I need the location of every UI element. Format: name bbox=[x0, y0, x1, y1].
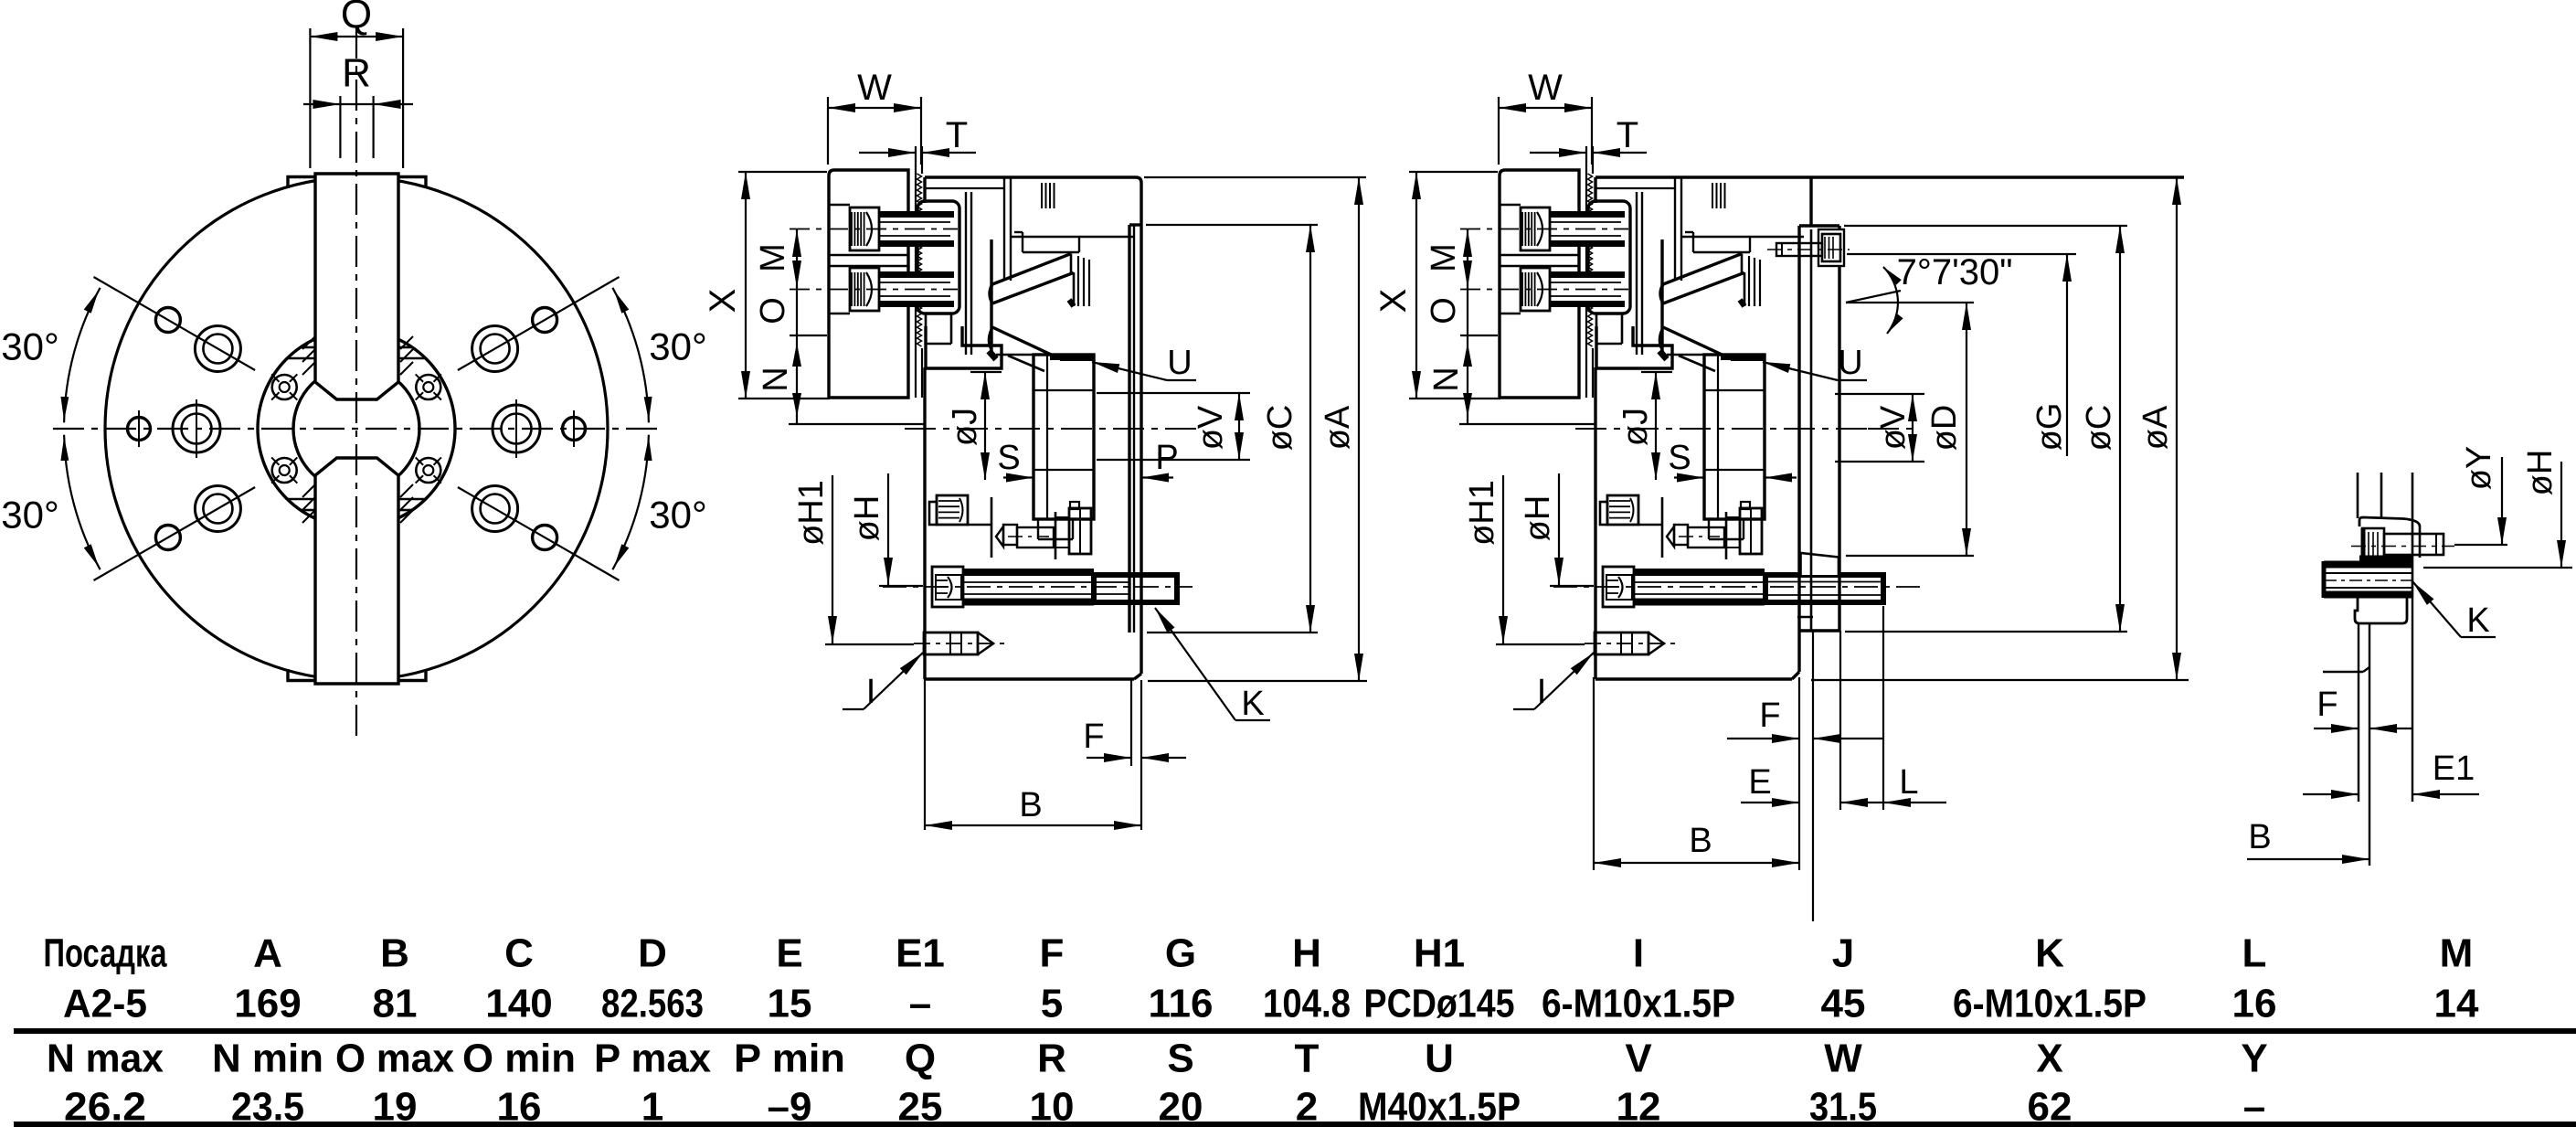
dim E1 detail bbox=[2303, 750, 2479, 799]
svg-text:O max: O max bbox=[335, 1037, 455, 1081]
svg-text:30°: 30° bbox=[649, 325, 707, 368]
main centerline bbox=[905, 428, 1197, 430]
svg-text:K: K bbox=[1241, 685, 1264, 723]
svg-text:20: 20 bbox=[1159, 1085, 1203, 1127]
svg-text:30°: 30° bbox=[1, 494, 59, 537]
7 deg 7 30 angle bbox=[1846, 252, 2012, 334]
draw screw thread block bbox=[1094, 575, 1177, 602]
svg-text:5: 5 bbox=[1041, 982, 1063, 1026]
table divider line bbox=[14, 1028, 2576, 1034]
svg-text:C: C bbox=[504, 931, 534, 976]
svg-text:81: 81 bbox=[373, 982, 418, 1026]
table values row 2 bbox=[64, 1085, 2265, 1127]
dim O bbox=[1425, 288, 1498, 335]
Q dimension bbox=[310, 0, 403, 168]
slot serration hatch marks bbox=[302, 336, 413, 523]
svg-text:R: R bbox=[342, 51, 371, 96]
svg-text:K: K bbox=[2466, 601, 2489, 640]
svg-text:Посадка: Посадка bbox=[44, 931, 167, 976]
svg-text:169: 169 bbox=[234, 982, 301, 1026]
svg-text:øY: øY bbox=[2460, 446, 2498, 491]
jaw mounting bolt 2 bbox=[1460, 268, 1628, 314]
svg-text:X: X bbox=[1373, 289, 1414, 314]
middle body right edge bbox=[1129, 183, 1141, 679]
svg-text:26.2: 26.2 bbox=[64, 1085, 146, 1127]
dim oC right bbox=[1844, 226, 2127, 632]
flange screw bbox=[1767, 229, 1850, 266]
svg-text:øA: øA bbox=[1319, 405, 1357, 450]
bolt circle symbols on axis bbox=[128, 399, 586, 458]
svg-text:7°7'30": 7°7'30" bbox=[1897, 252, 2013, 292]
black thread mark U right bbox=[1731, 354, 1765, 361]
svg-text:N min: N min bbox=[212, 1037, 323, 1081]
dim S bbox=[1668, 439, 1704, 483]
adapter ref lines down bbox=[925, 679, 1141, 830]
svg-text:øG: øG bbox=[2030, 403, 2069, 452]
jaw mounting bolt 2 bbox=[790, 268, 958, 314]
dim F middle bbox=[1083, 718, 1186, 762]
body outline bbox=[925, 177, 1141, 679]
jaw serration strip bbox=[1586, 146, 1593, 398]
svg-text:16: 16 bbox=[497, 1085, 542, 1127]
right S second arrow bbox=[1765, 473, 1797, 483]
svg-text:J: J bbox=[1832, 931, 1854, 976]
svg-text:F: F bbox=[1759, 696, 1780, 735]
svg-text:O: O bbox=[754, 297, 792, 324]
svg-text:E: E bbox=[776, 931, 802, 976]
dim oD right bbox=[1846, 303, 1974, 556]
svg-text:30°: 30° bbox=[1, 325, 59, 368]
dim oV middle bbox=[1097, 393, 1250, 460]
draw screw centerline bbox=[883, 586, 1193, 588]
dim L right bbox=[1883, 763, 1946, 807]
svg-text:øH1: øH1 bbox=[792, 480, 831, 546]
svg-text:øC: øC bbox=[2080, 405, 2118, 452]
locating plunger bbox=[1585, 633, 1676, 654]
center bore circle bbox=[293, 366, 419, 492]
pinion gear block bbox=[1726, 502, 1762, 559]
svg-text:N: N bbox=[757, 367, 795, 391]
svg-text:25: 25 bbox=[898, 1085, 943, 1127]
svg-text:12: 12 bbox=[1617, 1085, 1661, 1127]
svg-text:2: 2 bbox=[1296, 1085, 1318, 1127]
svg-text:–: – bbox=[2243, 1085, 2265, 1127]
detail: jaw nut block bbox=[2355, 598, 2407, 623]
dim oJ bbox=[946, 372, 1002, 480]
svg-text:Q: Q bbox=[341, 0, 372, 37]
label K leader detail bbox=[2412, 581, 2496, 640]
draw screw thread through flange bbox=[1765, 575, 1883, 602]
svg-text:23.5: 23.5 bbox=[231, 1085, 304, 1127]
svg-text:W: W bbox=[857, 68, 892, 108]
svg-text:N: N bbox=[1427, 367, 1466, 391]
dim N bbox=[757, 335, 925, 424]
dim oH1 bbox=[792, 475, 914, 644]
svg-text:øD: øD bbox=[1925, 405, 1964, 452]
draw screw shaft bbox=[962, 572, 1094, 602]
svg-text:–: – bbox=[909, 982, 931, 1026]
dim oJ bbox=[1617, 372, 1672, 480]
svg-text:X: X bbox=[2036, 1037, 2062, 1081]
svg-text:B: B bbox=[1689, 822, 1712, 860]
svg-text:øJ: øJ bbox=[946, 408, 984, 446]
svg-text:A: A bbox=[253, 931, 282, 976]
master jaw plate bbox=[917, 201, 959, 314]
label U leader bbox=[1092, 344, 1196, 382]
table header row 2 bbox=[47, 1037, 2268, 1081]
svg-text:O min: O min bbox=[462, 1037, 576, 1081]
svg-text:N max: N max bbox=[47, 1037, 164, 1081]
pinion plug bbox=[1600, 495, 1661, 525]
dim M bbox=[1425, 229, 1472, 288]
table values row 1 bbox=[63, 982, 2479, 1026]
svg-text:L: L bbox=[1899, 763, 1918, 802]
svg-text:T: T bbox=[946, 115, 968, 155]
svg-text:U: U bbox=[1425, 1037, 1454, 1081]
30 deg labels bbox=[1, 325, 707, 537]
svg-text:1: 1 bbox=[641, 1085, 663, 1127]
ref lines below right view bbox=[1594, 606, 1883, 921]
dim P bbox=[1141, 439, 1179, 483]
centerline horizontal bbox=[53, 428, 660, 430]
svg-text:U: U bbox=[1167, 344, 1192, 382]
svg-text:E1: E1 bbox=[2433, 750, 2475, 788]
label I leader bbox=[1513, 653, 1594, 711]
svg-text:S: S bbox=[1167, 1037, 1193, 1081]
svg-text:31.5: 31.5 bbox=[1809, 1085, 1877, 1127]
svg-text:I: I bbox=[866, 673, 876, 711]
master jaw plate bbox=[1588, 201, 1630, 314]
svg-text:M40x1.5P: M40x1.5P bbox=[1358, 1085, 1521, 1127]
detail: screw head bbox=[2362, 528, 2384, 562]
svg-text:P: P bbox=[1155, 439, 1178, 477]
svg-text:H1: H1 bbox=[1414, 931, 1465, 976]
set screw with cone tip bbox=[1662, 497, 1724, 558]
dim N bbox=[1427, 335, 1595, 424]
svg-text:øH: øH bbox=[848, 495, 886, 542]
wedge mechanism bbox=[1659, 239, 1760, 371]
collar above thread bbox=[1801, 553, 1839, 575]
svg-text:øV: øV bbox=[1874, 405, 1913, 450]
svg-text:116: 116 bbox=[1149, 982, 1214, 1026]
svg-text:E1: E1 bbox=[896, 931, 945, 976]
pinion gear block bbox=[1055, 502, 1091, 559]
svg-text:R: R bbox=[1037, 1037, 1066, 1081]
main centerline bbox=[1575, 428, 1919, 430]
svg-text:U: U bbox=[1838, 344, 1862, 382]
svg-text:O: O bbox=[1425, 297, 1463, 324]
svg-text:P min: P min bbox=[734, 1037, 845, 1081]
body outline bbox=[1595, 177, 1792, 679]
set screw with cone tip bbox=[991, 497, 1054, 558]
svg-text:PCDø145: PCDø145 bbox=[1364, 982, 1515, 1026]
dim oA right bbox=[1811, 177, 2189, 680]
svg-text:F: F bbox=[1040, 931, 1065, 976]
dim B detail bbox=[2247, 818, 2369, 864]
jaw serration strip bbox=[916, 146, 922, 398]
detail: jaw lines top bbox=[2358, 473, 2412, 598]
svg-text:19: 19 bbox=[373, 1085, 418, 1127]
svg-text:E: E bbox=[1748, 763, 1771, 802]
svg-text:W: W bbox=[1528, 68, 1563, 108]
cylinder seam lines bbox=[925, 177, 1133, 355]
detail: lines below bbox=[2323, 598, 2412, 866]
svg-text:X: X bbox=[703, 289, 743, 314]
draw screw shaft bbox=[1633, 572, 1765, 602]
sleeve bbox=[1704, 355, 1765, 539]
svg-text:16: 16 bbox=[2232, 982, 2277, 1026]
svg-text:Q: Q bbox=[905, 1037, 936, 1081]
svg-text:øC: øC bbox=[1261, 405, 1299, 452]
svg-text:A2-5: A2-5 bbox=[63, 982, 147, 1026]
svg-text:104.8: 104.8 bbox=[1263, 982, 1351, 1026]
dim W bbox=[1499, 68, 1592, 165]
centerline vertical bbox=[355, 27, 357, 739]
svg-text:M: M bbox=[1425, 243, 1463, 272]
detail: screw shank bbox=[2351, 534, 2454, 555]
label I leader bbox=[843, 653, 923, 711]
dim oH detail bbox=[2423, 450, 2572, 568]
svg-text:30°: 30° bbox=[649, 494, 707, 537]
dim B right bbox=[1594, 822, 1799, 867]
svg-text:82.563: 82.563 bbox=[601, 982, 704, 1026]
dim T bbox=[859, 115, 976, 157]
table bottom line bbox=[14, 1122, 2576, 1127]
svg-text:6-M10x1.5P: 6-M10x1.5P bbox=[1542, 982, 1735, 1026]
cylinder seam lines bbox=[1595, 177, 1804, 355]
draw screw head bbox=[932, 567, 963, 607]
svg-text:W: W bbox=[1824, 1037, 1862, 1081]
black thread mark U bbox=[1060, 354, 1094, 361]
top edge extension right view bbox=[1595, 175, 2184, 178]
svg-text:B: B bbox=[1019, 786, 1042, 824]
svg-text:L: L bbox=[2242, 931, 2267, 976]
svg-text:M: M bbox=[754, 243, 792, 272]
svg-text:øH: øH bbox=[2521, 450, 2560, 496]
right body edge and flange bbox=[1792, 177, 1839, 679]
svg-text:–9: –9 bbox=[768, 1085, 812, 1127]
svg-text:15: 15 bbox=[768, 982, 812, 1026]
hub slot chords bbox=[287, 347, 426, 510]
jaw bar bottom bbox=[315, 458, 398, 684]
svg-text:øH1: øH1 bbox=[1463, 480, 1501, 546]
svg-text:10: 10 bbox=[1030, 1085, 1075, 1127]
slot steps at rim bbox=[288, 177, 426, 681]
svg-text:T: T bbox=[1295, 1037, 1320, 1081]
front view: chuck body circle bbox=[105, 177, 608, 680]
svg-text:P max: P max bbox=[594, 1037, 712, 1081]
label U leader bbox=[1763, 344, 1867, 382]
svg-text:V: V bbox=[1625, 1037, 1652, 1081]
svg-text:K: K bbox=[2035, 931, 2064, 976]
jaw block bbox=[829, 170, 908, 398]
dim F detail bbox=[2314, 686, 2413, 733]
svg-text:B: B bbox=[2248, 818, 2271, 856]
jaw mounting bolt 1 bbox=[790, 205, 958, 250]
bolt circle symbols on 30 deg rays bbox=[155, 308, 557, 550]
svg-text:6-M10x1.5P: 6-M10x1.5P bbox=[1953, 982, 2147, 1026]
dim oV right bbox=[1835, 394, 1924, 462]
svg-text:F: F bbox=[2316, 686, 2337, 724]
svg-text:øV: øV bbox=[1192, 405, 1230, 450]
svg-text:G: G bbox=[1165, 931, 1196, 976]
detail: top cap piece bbox=[2359, 517, 2420, 558]
30 deg dimension arcs bbox=[60, 288, 652, 569]
dim oH bbox=[1519, 473, 1594, 586]
svg-text:B: B bbox=[380, 931, 409, 976]
svg-text:øA: øA bbox=[2136, 405, 2175, 450]
dim oY bbox=[2454, 446, 2507, 545]
pinion plug bbox=[929, 495, 991, 525]
svg-text:45: 45 bbox=[1821, 982, 1866, 1026]
jaw block bbox=[1500, 170, 1579, 398]
svg-text:Y: Y bbox=[2241, 1037, 2267, 1081]
table header row bbox=[44, 931, 2474, 976]
svg-text:D: D bbox=[638, 931, 667, 976]
dim oH1 bbox=[1463, 475, 1585, 644]
dim oA middle bbox=[1144, 177, 1367, 681]
dim T bbox=[1530, 115, 1647, 157]
jaw mounting bolt 1 bbox=[1460, 205, 1628, 250]
R dimension bbox=[303, 51, 413, 159]
hub flange circle bbox=[258, 330, 455, 527]
30 deg rays bbox=[94, 277, 620, 580]
dim W bbox=[828, 68, 921, 165]
hub mount bolts (4 cross symbols) bbox=[271, 374, 441, 483]
dim F right bbox=[1727, 696, 1884, 743]
sleeve bbox=[1034, 355, 1094, 539]
svg-text:140: 140 bbox=[485, 982, 552, 1026]
svg-text:øH: øH bbox=[1519, 495, 1557, 542]
dim E right bbox=[1741, 763, 1884, 807]
svg-text:H: H bbox=[1292, 931, 1321, 976]
dim oH bbox=[848, 473, 923, 586]
label K leader middle bbox=[1155, 608, 1270, 723]
wedge mechanism bbox=[989, 239, 1089, 371]
svg-text:S: S bbox=[997, 439, 1020, 477]
svg-text:I: I bbox=[1537, 673, 1547, 711]
draw screw centerline bbox=[1553, 586, 1863, 588]
locating plunger bbox=[914, 633, 1005, 654]
dim M bbox=[754, 229, 801, 288]
dim X bbox=[1373, 172, 1500, 399]
svg-text:øJ: øJ bbox=[1617, 408, 1655, 446]
draw screw head bbox=[1603, 567, 1634, 607]
dim S bbox=[997, 439, 1034, 483]
svg-text:T: T bbox=[1617, 115, 1638, 155]
svg-text:I: I bbox=[1633, 931, 1644, 976]
svg-text:F: F bbox=[1083, 718, 1104, 756]
detail: serration black bands bbox=[2324, 558, 2412, 598]
svg-text:14: 14 bbox=[2434, 982, 2479, 1026]
svg-text:62: 62 bbox=[2028, 1085, 2072, 1127]
svg-text:M: M bbox=[2440, 931, 2474, 976]
dim X bbox=[703, 172, 830, 399]
dim O bbox=[754, 288, 827, 335]
svg-text:S: S bbox=[1668, 439, 1691, 477]
jaw bar top bbox=[315, 174, 398, 399]
dim oG right bbox=[1847, 254, 2076, 456]
dim B middle bbox=[925, 786, 1141, 830]
draw screw centerline over thread bbox=[1770, 586, 1924, 588]
dim oC middle bbox=[1146, 225, 1318, 633]
